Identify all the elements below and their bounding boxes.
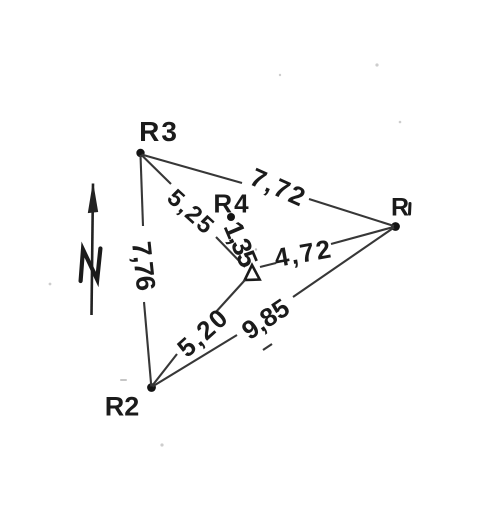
wire R2-R1 second segment (293, 228, 394, 298)
scan specks (49, 63, 402, 446)
wire R3-R2 second segment (144, 302, 151, 387)
wire R3-station second segment (216, 237, 245, 267)
wire R3-R1 second segment (309, 199, 394, 226)
wire station-R1 second segment (331, 227, 394, 244)
north arrow (88, 184, 97, 316)
svg-text:R3: R3 (139, 116, 179, 147)
wire R3-R2 first segment (141, 155, 144, 226)
station triangle (245, 265, 260, 280)
wire R2-R1 stray dash (263, 344, 272, 350)
wire R2-R1 first segment (153, 335, 238, 387)
wire R3-station first segment (142, 155, 172, 184)
svg-text:R4: R4 (213, 189, 250, 219)
svg-text:R2: R2 (105, 392, 140, 422)
wire R3-R1 first segment (142, 155, 243, 184)
svg-text:R: R (391, 194, 409, 222)
wire station-R1 dash at triangle (260, 263, 276, 267)
wire R2-station first segment (152, 354, 177, 386)
node R1 (391, 222, 400, 231)
svg-text:7,76: 7,76 (126, 240, 161, 292)
north label N (81, 249, 101, 282)
node R2 (147, 383, 156, 392)
node R3 (136, 149, 144, 157)
wire R2-station second segment (215, 280, 245, 313)
node R4 (227, 213, 235, 221)
